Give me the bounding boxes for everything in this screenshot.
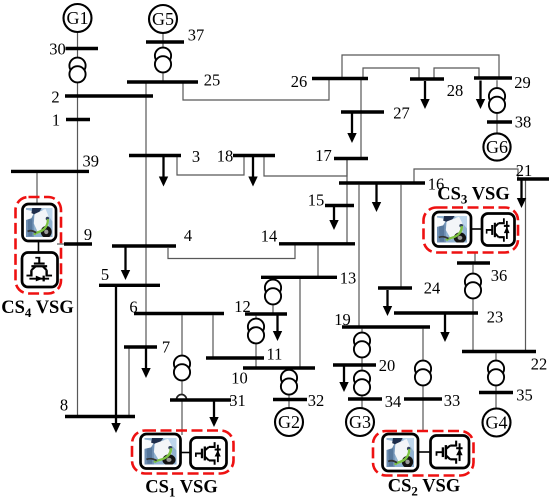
svg-text:CS4 VSG: CS4 VSG	[1, 298, 74, 320]
svg-text:G4: G4	[486, 413, 508, 433]
svg-text:39: 39	[82, 151, 99, 170]
svg-text:38: 38	[515, 112, 532, 131]
svg-text:15: 15	[308, 190, 325, 209]
svg-text:CS2 VSG: CS2 VSG	[388, 477, 461, 499]
svg-text:23: 23	[487, 307, 504, 326]
svg-text:G5: G5	[152, 9, 174, 29]
svg-text:27: 27	[393, 103, 410, 122]
svg-text:G6: G6	[486, 137, 508, 157]
svg-text:33: 33	[444, 391, 461, 410]
svg-text:34: 34	[385, 392, 402, 411]
svg-text:4: 4	[184, 226, 192, 245]
svg-text:12: 12	[234, 297, 251, 316]
svg-text:6: 6	[129, 297, 137, 316]
svg-text:17: 17	[315, 146, 332, 165]
svg-text:10: 10	[231, 368, 248, 387]
svg-text:28: 28	[447, 81, 464, 100]
svg-text:24: 24	[424, 278, 441, 297]
svg-text:19: 19	[334, 310, 351, 329]
svg-text:26: 26	[291, 72, 308, 91]
svg-text:30: 30	[49, 39, 66, 58]
svg-text:8: 8	[60, 395, 68, 414]
svg-text:G2: G2	[278, 412, 300, 432]
svg-text:20: 20	[379, 356, 396, 375]
svg-text:18: 18	[217, 146, 234, 165]
svg-text:13: 13	[340, 268, 357, 287]
svg-text:32: 32	[308, 391, 325, 410]
svg-text:1: 1	[52, 110, 60, 129]
svg-text:11: 11	[267, 344, 283, 363]
svg-text:31: 31	[229, 391, 246, 410]
svg-text:5: 5	[101, 265, 109, 284]
svg-text:G1: G1	[67, 8, 89, 28]
svg-text:22: 22	[531, 354, 548, 373]
svg-text:14: 14	[261, 226, 278, 245]
svg-text:36: 36	[491, 266, 508, 285]
svg-text:2: 2	[51, 87, 59, 106]
svg-text:37: 37	[188, 25, 205, 44]
svg-text:CS1 VSG: CS1 VSG	[145, 478, 218, 500]
svg-text:25: 25	[204, 70, 221, 89]
svg-text:29: 29	[514, 73, 531, 92]
svg-text:9: 9	[84, 225, 92, 244]
svg-text:21: 21	[516, 161, 533, 180]
svg-text:7: 7	[162, 337, 170, 356]
svg-text:3: 3	[192, 147, 200, 166]
svg-text:35: 35	[516, 385, 533, 404]
svg-text:CS3 VSG: CS3 VSG	[437, 185, 510, 207]
svg-text:G3: G3	[349, 412, 371, 432]
